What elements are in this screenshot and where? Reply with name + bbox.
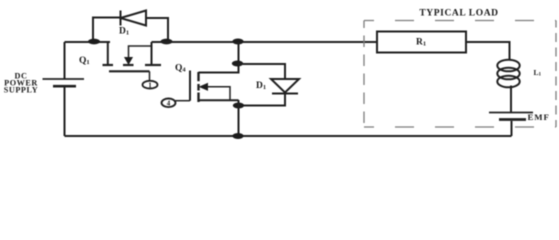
node: junction dot top rail right of Q1 xyxy=(161,39,173,45)
resistor R1 xyxy=(377,32,466,53)
gate terminal circle 1 xyxy=(143,81,158,90)
node: junction dot on bottom rail xyxy=(232,133,243,139)
svg-text:D1: D1 xyxy=(256,81,266,91)
inductor L1 xyxy=(497,60,519,112)
svg-text:TYPICAL LOAD: TYPICAL LOAD xyxy=(419,9,498,19)
svg-text:D1: D1 xyxy=(119,27,129,37)
transistor Q4 xyxy=(190,71,239,103)
wire: top rail left segment xyxy=(65,41,111,43)
wire: R1 to inductor xyxy=(466,42,510,61)
svg-text:Q1: Q1 xyxy=(79,56,90,66)
svg-text:SUPPLY: SUPPLY xyxy=(4,86,38,95)
battery EMF xyxy=(489,113,533,137)
battery: DC power supply xyxy=(43,79,85,136)
svg-text:4: 4 xyxy=(167,100,171,108)
diode D1 (right, across Q4) xyxy=(238,64,299,106)
wire: left vertical from top rail to battery xyxy=(64,42,66,79)
wire: top rail middle segment xyxy=(152,41,378,43)
wire: center rail down to Q4 drain xyxy=(199,42,239,73)
diode D1 (top, across Q1) xyxy=(93,11,168,42)
svg-text:1: 1 xyxy=(148,81,152,89)
wire: bottom rail xyxy=(65,135,512,137)
node: junction dot at D1 bottom branch xyxy=(233,103,244,109)
svg-text:EMF: EMF xyxy=(528,112,550,122)
transistor Q1 xyxy=(103,42,162,81)
node: junction dot top rail left xyxy=(88,39,100,45)
dashed box: typical load xyxy=(364,21,556,128)
label DC POWER SUPPLY xyxy=(4,72,38,95)
svg-text:Q4: Q4 xyxy=(175,64,186,74)
node: junction dot at top of center rail xyxy=(232,39,243,45)
gate terminal circle 4 xyxy=(162,99,191,108)
node: junction dot at D1 top branch xyxy=(232,61,243,67)
svg-text:L1: L1 xyxy=(534,68,542,78)
wire: center rail lower segment xyxy=(238,100,240,136)
